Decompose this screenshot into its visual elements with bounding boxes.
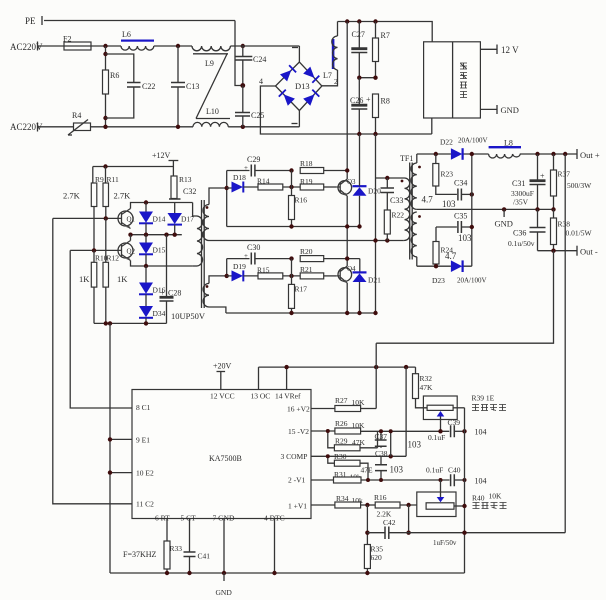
node C42 left junction [365, 531, 369, 535]
auxiliary power supply box [424, 42, 481, 118]
diode D13 top-right element [303, 67, 319, 83]
wire Out- line [538, 250, 578, 252]
svg-text:D20: D20 [368, 187, 381, 196]
svg-text:5 CT: 5 CT [181, 514, 197, 523]
wire R26 R29 join [377, 431, 379, 448]
wire IC bottom ground line [110, 572, 465, 574]
wire L7 top to DC bus [337, 22, 339, 37]
resistor R11 [103, 167, 119, 219]
node rail junction C27 [357, 19, 361, 23]
resistor R19 [300, 177, 337, 190]
pin 6 RT [155, 514, 170, 542]
svg-text:Q3: Q3 [347, 178, 356, 186]
resistor R26 [335, 419, 449, 434]
node R17 bottom junction [289, 311, 293, 315]
svg-text:R7: R7 [381, 31, 390, 40]
node C41 ground junction [187, 571, 191, 575]
svg-text:9 E1: 9 E1 [136, 436, 150, 445]
label R39 CJK current adjust [472, 405, 506, 411]
node C42 line junction [406, 531, 410, 535]
svg-text:C24: C24 [253, 55, 266, 64]
svg-text:R26: R26 [335, 419, 348, 428]
transformer TF1 primary winding [401, 178, 410, 241]
node C38 junction on pin2 line [379, 478, 383, 482]
node C31 top junction [535, 152, 539, 156]
svg-text:Out -: Out - [580, 247, 598, 257]
wire PE line [44, 20, 235, 22]
svg-text:2 -V1: 2 -V1 [288, 476, 306, 485]
capacitor C26 [350, 78, 371, 134]
svg-text:R4: R4 [72, 111, 81, 120]
wire bottom drive jog [291, 259, 293, 285]
wire R16 to C42 line [408, 505, 410, 533]
node riser junction pin15 line [389, 429, 393, 433]
wire common-mode choke core (diagonal) [196, 54, 227, 119]
svg-text:2.7K: 2.7K [63, 191, 81, 201]
resistor R21 [300, 265, 337, 279]
svg-text:14 VRef: 14 VRef [275, 392, 301, 401]
resistor R6 [103, 46, 120, 127]
svg-text:R12: R12 [107, 254, 120, 263]
pin 14 VRef [275, 367, 301, 400]
node R6 bottom tap [103, 116, 107, 120]
svg-text:Q1: Q1 [127, 216, 136, 224]
resistor R13 [171, 167, 192, 200]
node bottom drive node lower [289, 274, 293, 278]
resistor R37 [551, 154, 571, 209]
svg-text:1uF/50v: 1uF/50v [433, 539, 457, 547]
svg-text:12 VCC: 12 VCC [210, 392, 235, 401]
node +20V terminal [213, 362, 232, 372]
node R23 top junction [434, 152, 438, 156]
svg-text:+12V: +12V [152, 151, 171, 160]
wire pin8 C1 vertical [70, 250, 132, 408]
wire capacitor divider midpoint [359, 77, 375, 79]
svg-text:20A/100V: 20A/100V [457, 277, 487, 285]
node D34 bottom junction [144, 321, 148, 325]
capacitor C36 [513, 209, 546, 250]
wire F2 to L6 [91, 45, 121, 47]
transformer T primary winding [193, 203, 203, 267]
wire L9 to bridge [230, 45, 299, 47]
node R30 jog junction [326, 454, 330, 458]
diode D19 [227, 262, 258, 281]
node midpoint junction R20 line [345, 256, 349, 260]
node R40 right junction [462, 504, 466, 508]
svg-text:+: + [540, 172, 545, 181]
node junction top-left [103, 44, 107, 48]
potentiometer R39 [416, 396, 465, 431]
node AC220V top terminal [10, 42, 43, 53]
resistor R23 [433, 154, 457, 194]
svg-text:R6: R6 [110, 71, 119, 80]
wire Q2 base line from pin C1 [70, 249, 118, 251]
resistor R38 [551, 209, 571, 250]
capacitor C34 snubber [454, 179, 472, 201]
svg-text:R40: R40 [472, 494, 485, 503]
node snubber bottom junction [470, 225, 474, 229]
svg-text:R39 1E: R39 1E [472, 394, 495, 403]
node negative rail junction R8 [373, 132, 377, 136]
svg-text:D18: D18 [233, 173, 246, 182]
node bottom junction R6 [103, 125, 107, 129]
svg-text:C30: C30 [247, 243, 260, 252]
wire Q3 collector feed from bus [346, 22, 348, 180]
svg-text:R37: R37 [558, 170, 571, 179]
capacitor C35 snubber [454, 212, 472, 234]
wire R29 jog [328, 431, 335, 448]
svg-text:C31: C31 [512, 179, 525, 188]
svg-text:D34: D34 [153, 309, 166, 318]
resistor R16 [374, 493, 417, 508]
resistor R34 [335, 494, 375, 508]
capacitor C13 [171, 46, 199, 127]
resistor R15 [257, 266, 300, 279]
capacitor C33 [381, 178, 404, 210]
node pin15 jog junction [326, 429, 330, 433]
wire VRef OC line [259, 366, 416, 368]
svg-text:R30: R30 [334, 452, 347, 461]
pin 15 -V2 [288, 427, 335, 436]
node R33 ground junction [165, 571, 169, 575]
svg-text:1 +V1: 1 +V1 [288, 502, 307, 511]
wire positive DC bus top rail [338, 22, 433, 42]
transistor Q1 [118, 209, 136, 229]
node snubber top junction [470, 192, 474, 196]
wire C29 left jog [226, 171, 228, 227]
wire E1 E2 vertical [109, 323, 111, 573]
svg-text:D14: D14 [153, 215, 166, 224]
wire inverter bottom line [226, 312, 376, 314]
wire pin11 C2 vertical [53, 218, 132, 503]
capacitor C42 [383, 518, 396, 539]
capacitor C30 [227, 243, 292, 265]
svg-text:4.7: 4.7 [422, 195, 434, 205]
svg-text:C27: C27 [352, 30, 365, 39]
wire AC top lead [38, 45, 64, 47]
capacitor C38 [375, 449, 388, 480]
svg-text:R16: R16 [374, 493, 387, 502]
svg-text:16 +V2: 16 +V2 [287, 405, 310, 414]
svg-text:TF1: TF1 [400, 154, 413, 163]
inductor L7 [323, 36, 338, 80]
wire Q3 emitter return line L1 [227, 226, 360, 228]
node feed junction R11 [103, 164, 107, 168]
node C40 right junction [463, 478, 467, 482]
node A-line junction C33 chain [385, 238, 389, 242]
svg-text:12 V: 12 V [501, 45, 519, 55]
resistor R9 [91, 167, 104, 251]
svg-text:103: 103 [442, 199, 456, 209]
wire Q2 collector to midpoint [130, 235, 132, 241]
node totem midpoint [128, 233, 132, 237]
svg-text:C36: C36 [513, 229, 526, 238]
svg-text:KA7500B: KA7500B [209, 454, 242, 463]
svg-text:GND: GND [216, 588, 233, 597]
node C33 top junction [385, 176, 389, 180]
transformer TF1 bottom secondary [411, 212, 421, 266]
resistor R30 [328, 452, 368, 480]
capacitor C37 [375, 431, 388, 446]
node Q3 emitter junction L1 [345, 224, 349, 228]
capacitor C25 [235, 86, 264, 127]
node C25 bottom junction [241, 125, 245, 129]
label aux supply CJK text [460, 63, 467, 98]
node R40 wiper junction [439, 478, 443, 482]
transistor Q4 [337, 265, 356, 283]
node Q4 emitter junction [345, 311, 349, 315]
wire bridge bottom corner lead [298, 111, 300, 127]
wire C42 feedback line [367, 532, 565, 534]
node GND output terminal [480, 105, 519, 115]
svg-text:0.1uF: 0.1uF [428, 433, 445, 442]
svg-text:104: 104 [475, 477, 487, 486]
wire Q4 emitter to bottom line [346, 283, 348, 313]
node D20 anode end junction [357, 224, 361, 228]
inductor L9 [192, 46, 230, 68]
svg-text:104: 104 [475, 428, 487, 437]
wire R34 node to R35 [366, 505, 368, 545]
potentiometer R40 [417, 480, 465, 517]
node COMP riser junction [404, 365, 408, 369]
svg-text:D21: D21 [368, 276, 381, 285]
transformer TF1 core [410, 163, 413, 260]
capacitor C40 [448, 466, 465, 487]
wire bridge minus corner to negative rail [260, 86, 431, 134]
svg-text:4: 4 [259, 77, 263, 86]
svg-text:R18: R18 [300, 159, 313, 168]
node R24 bottom junction [434, 264, 438, 268]
svg-text:GND: GND [501, 105, 519, 115]
resistor R29 [334, 437, 377, 451]
node rail junction R7 [373, 19, 377, 23]
pin 16 +V2 [287, 405, 335, 414]
svg-text:10UP50V: 10UP50V [171, 311, 206, 321]
svg-text:2.7K: 2.7K [114, 191, 132, 201]
wire TF1 primary top lead [376, 177, 405, 179]
resistor R32 [413, 367, 434, 398]
svg-text:D23: D23 [432, 276, 445, 285]
svg-text:PE: PE [25, 16, 36, 26]
svg-text:+20V: +20V [213, 362, 232, 371]
resistor R33 [164, 541, 182, 573]
pin 2 -V1 [288, 476, 334, 485]
wire COMP riser [405, 367, 407, 456]
svg-text:D19: D19 [233, 262, 246, 271]
resistor R27 [335, 396, 376, 412]
node return junction A-line [373, 238, 377, 242]
capacitor C39 [448, 418, 465, 437]
node pin7 ground junction [222, 571, 226, 575]
svg-text:4.7: 4.7 [445, 251, 457, 261]
diode D15 [139, 235, 166, 266]
svg-text:620: 620 [371, 553, 383, 562]
wire C22 loop top [106, 54, 134, 83]
node PE terminal [25, 16, 42, 26]
node E1 E2 junction [108, 321, 112, 325]
capacitor C24 [235, 46, 267, 86]
node C37 junction on pin15 line [379, 429, 383, 433]
wire pin15 to COMP riser [390, 431, 392, 456]
node D19 anode junction [225, 274, 229, 278]
node sense riser junction on COMP [389, 454, 393, 458]
svg-text:L7: L7 [323, 71, 332, 80]
wire pin10 E2 stub [110, 472, 132, 474]
node DTC ground junction [272, 571, 276, 575]
svg-text:C32: C32 [183, 187, 196, 196]
node E2 junction [108, 470, 112, 474]
svg-text:D22: D22 [440, 138, 453, 147]
svg-text:C29: C29 [247, 155, 260, 164]
node R16 bottom junction [289, 224, 293, 228]
node R6 top tap [103, 52, 107, 56]
diode D20 [353, 134, 382, 227]
capacitor C31 [512, 154, 546, 209]
node D15 bottom junction [144, 264, 148, 268]
wire Q2 emitter line [131, 261, 193, 267]
node VRef junction [284, 365, 288, 369]
wire R20 line corner to D21 [359, 259, 361, 273]
resistor R31 [334, 470, 450, 483]
transformer T bottom secondary [203, 276, 227, 313]
wire Q3 emitter chain [346, 196, 348, 266]
svg-text:+: + [366, 95, 371, 104]
svg-text:103: 103 [408, 440, 422, 450]
varistor R4 [68, 111, 91, 135]
resistor R7 [373, 22, 390, 78]
wire L10 core bar [196, 118, 230, 120]
resistor R20 [300, 247, 360, 262]
node D17 bottom junction [173, 233, 177, 237]
node midpoint C27 C26 [357, 76, 361, 80]
svg-text:F=37KHZ: F=37KHZ [123, 550, 157, 559]
resistor R16 [289, 196, 308, 227]
wire sense chain vertical [464, 408, 466, 573]
wire primary return vertical [375, 134, 377, 313]
svg-text:11 C2: 11 C2 [136, 500, 154, 509]
pin 4 DTC [264, 514, 285, 574]
svg-text:R33: R33 [170, 544, 183, 553]
node R34 R16 junction [365, 503, 369, 507]
wire aux box bottom to negative rail [431, 118, 433, 134]
diode D34 [139, 306, 166, 323]
bridge rectifier D13 frame [276, 62, 322, 111]
node bottom junction C13 [176, 125, 180, 129]
node R38 top junction [551, 207, 555, 211]
svg-text:47K: 47K [420, 383, 434, 392]
svg-text:3 COMP: 3 COMP [281, 452, 308, 461]
svg-text:D15: D15 [153, 246, 166, 255]
pin 1 +V1 [288, 502, 335, 511]
resistor R14 [257, 177, 300, 191]
resistor R10 [91, 250, 107, 323]
diode D16 [139, 266, 166, 306]
svg-text:R23: R23 [441, 170, 454, 179]
node top drive node lower [289, 185, 293, 189]
svg-text:D13: D13 [295, 81, 310, 91]
svg-text:0.01/5W: 0.01/5W [566, 229, 593, 238]
node bridge AC mark top [292, 47, 298, 49]
svg-text:10K: 10K [489, 492, 503, 501]
node negative rail junction C26 [357, 132, 361, 136]
node return junction bottom line [373, 311, 377, 315]
ground GND output mid [495, 209, 513, 228]
node C28 top junction [164, 233, 168, 237]
wire Out+ sense vertical [564, 154, 566, 533]
fuse F2 [63, 35, 91, 51]
diode D14 [139, 203, 166, 235]
node D14 bottom junction [144, 233, 148, 237]
svg-text:C33: C33 [390, 196, 403, 205]
diode D21 [353, 272, 382, 313]
wire AC bottom lead [38, 126, 74, 128]
pin 7 GND [213, 514, 235, 574]
wire L10 to bridge bottom [228, 126, 299, 128]
node D14 top junction [144, 200, 148, 204]
transistor Q3 [337, 178, 356, 196]
node Y-cap midpoint [240, 83, 245, 88]
node rail junction Q3 feed [345, 19, 349, 23]
node Out- terminal [577, 246, 598, 257]
svg-text:R8: R8 [381, 97, 390, 106]
capacitor C41 [184, 552, 211, 574]
svg-text:R27: R27 [335, 396, 348, 405]
wire +12V feed line [93, 161, 174, 167]
resistor R24 [433, 227, 457, 266]
node D21 anode junction [357, 311, 361, 315]
diode D13 bottom-right element [303, 90, 319, 106]
resistor R18 [300, 159, 347, 174]
resistor R22 [384, 210, 404, 241]
inductor L6 [121, 30, 154, 50]
resistor R35 [364, 545, 383, 574]
transistor Q2 [118, 241, 136, 261]
svg-text:Out +: Out + [580, 150, 600, 160]
svg-text:1K: 1K [117, 274, 128, 284]
pin 12 VCC [210, 372, 235, 401]
svg-text:R22: R22 [392, 211, 405, 220]
wire pin9 E1 stub [110, 438, 132, 440]
wire bridge plus corner to L7 [322, 70, 338, 86]
diode D23 [451, 260, 463, 272]
wire bridge top corner lead [298, 46, 300, 62]
node sense chain C42 junction [462, 531, 466, 535]
node R35 ground junction [365, 571, 369, 575]
resistor R17 [289, 284, 308, 313]
svg-text:R38: R38 [558, 220, 571, 229]
wire Q1 base line from pin C2 [53, 217, 118, 219]
resistor R12 [103, 218, 119, 323]
svg-text:C40: C40 [448, 466, 461, 475]
node R16 output junction [406, 503, 410, 507]
node +12V terminal [152, 151, 178, 161]
svg-text:0.1u/50v: 0.1u/50v [508, 239, 535, 248]
capacitor C27 [351, 22, 367, 78]
node AC220V bottom terminal [10, 122, 43, 132]
svg-text:C41: C41 [198, 552, 211, 561]
svg-text:L9: L9 [205, 59, 214, 68]
svg-text:R32: R32 [420, 374, 433, 383]
wire L6 to L9 [154, 45, 192, 47]
svg-text:47E: 47E [361, 466, 374, 475]
inductor L8 [489, 139, 521, 159]
svg-text:2: 2 [334, 77, 338, 86]
svg-text:103: 103 [458, 233, 472, 243]
capacitor C32 [169, 187, 196, 199]
svg-text:L10: L10 [206, 107, 219, 116]
svg-text:6 RT: 6 RT [155, 514, 170, 523]
node GND mid junction [502, 207, 506, 211]
